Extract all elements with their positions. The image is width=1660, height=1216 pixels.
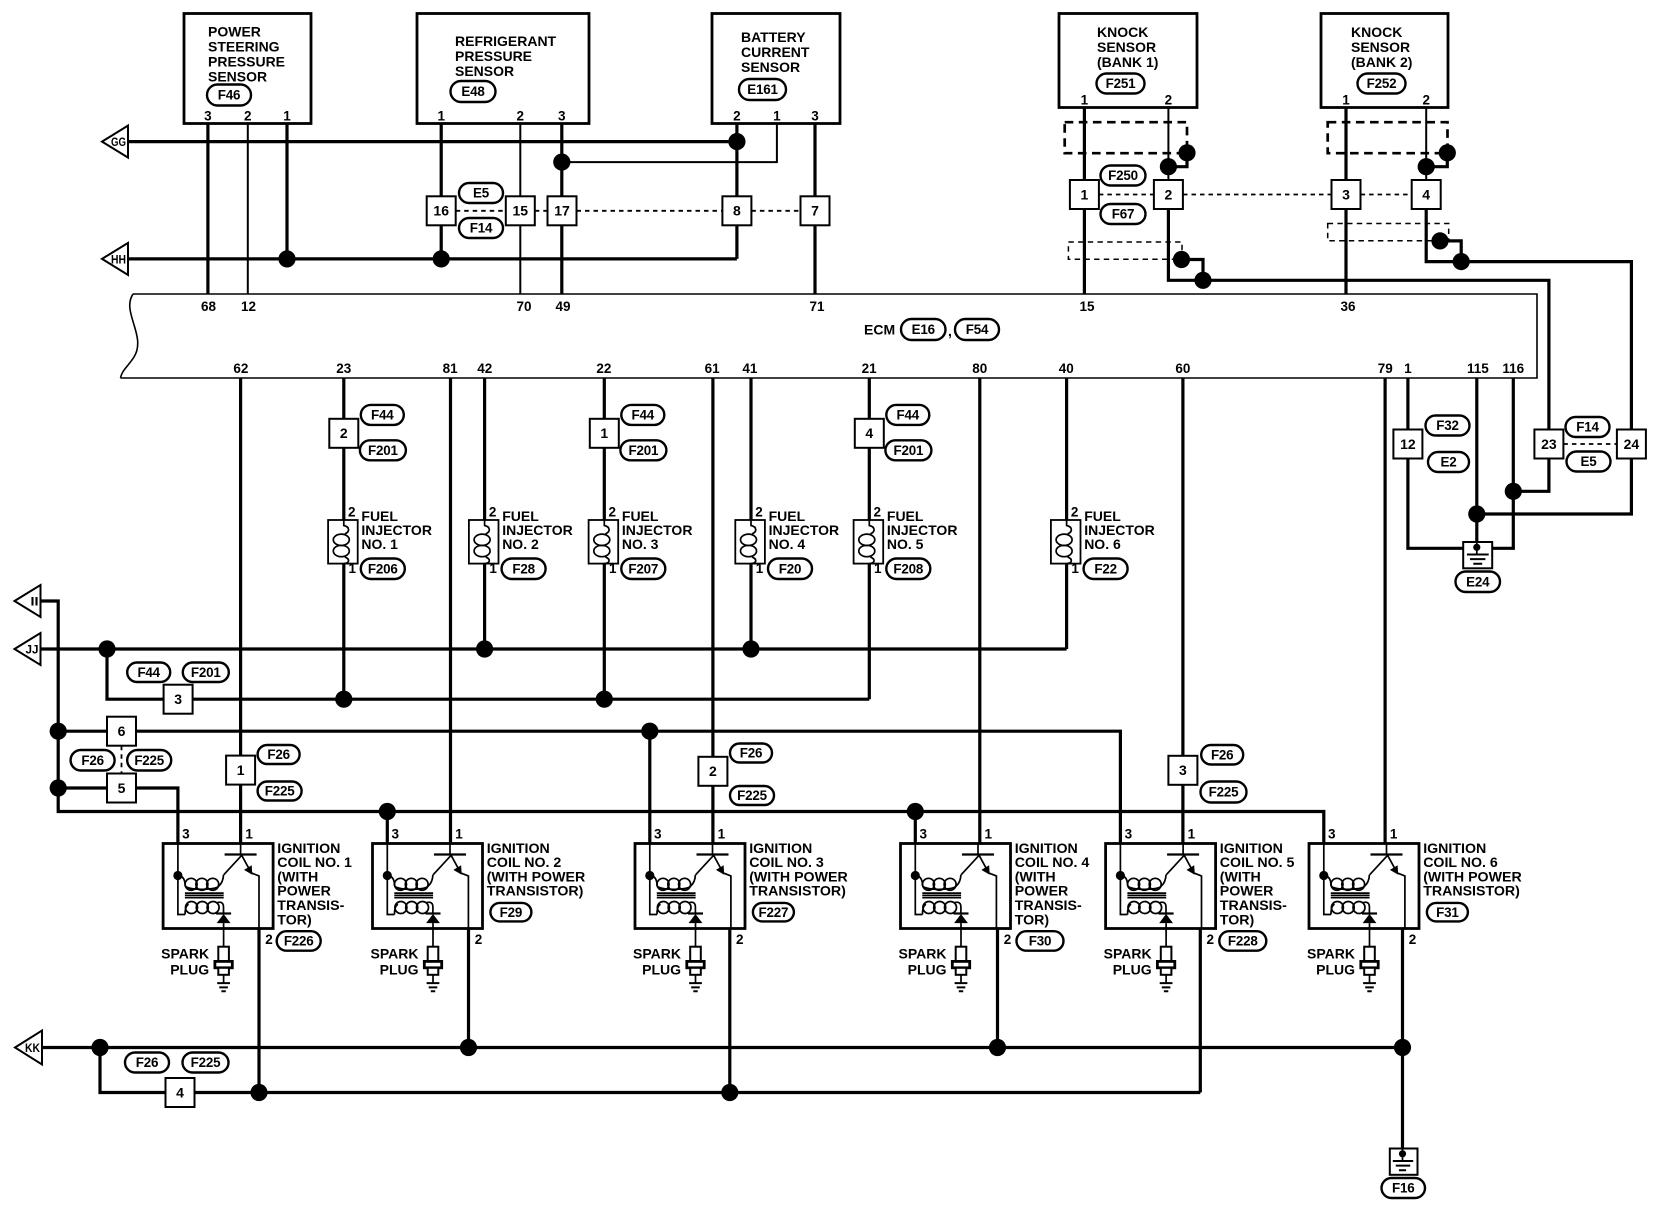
svg-text:REFRIGERANT: REFRIGERANT [455, 33, 557, 49]
svg-text:F14: F14 [1576, 420, 1599, 435]
svg-text:SPARK: SPARK [1104, 946, 1152, 962]
svg-text:3: 3 [182, 827, 190, 842]
wire ECM pin 40 to fuel injector 6 and corner onto JJ bus [1065, 378, 1068, 649]
svg-text:1: 1 [437, 109, 445, 124]
svg-text:3: 3 [558, 109, 566, 124]
connector 3 on coil5 wire F26/F225 [1168, 756, 1197, 785]
svg-text:F26: F26 [136, 1055, 158, 1070]
ignition coil no. 3 with power transistor F227 [635, 844, 745, 929]
svg-text:E2: E2 [1441, 455, 1457, 470]
svg-text:PRESSURE: PRESSURE [455, 48, 532, 64]
svg-text:KK: KK [25, 1043, 41, 1055]
wire knock sensor bank2 pin 2 lower segment to connector 24 to node on ECM 115 wire [1426, 195, 1631, 515]
svg-text:HH: HH [111, 254, 126, 266]
svg-text:GG: GG [111, 137, 126, 149]
svg-text:F201: F201 [191, 665, 221, 680]
connector 15 refrigerant pin2 [506, 196, 535, 225]
connector label F26 rows B/C [71, 750, 115, 771]
wire ECM pin 21 to fuel injector 5 and corner onto row A [868, 378, 871, 699]
connector label F26 coil5 [1201, 745, 1243, 765]
connector arrow GG [102, 126, 128, 158]
svg-text:F26: F26 [267, 747, 289, 762]
connector label F228 [1219, 931, 1266, 951]
connector 2 on coil3 wire F26/F225 [698, 757, 727, 786]
svg-text:SENSOR: SENSOR [208, 69, 267, 85]
wire ECM pin 60 to ignition coil 5 pin 1 [1181, 378, 1184, 844]
svg-text:F44: F44 [897, 408, 920, 423]
wire ECM pin 116 to ground E24 [1492, 378, 1513, 548]
connector arrow JJ [15, 633, 41, 665]
ignition coil no. 6 with power transistor F31 [1309, 844, 1419, 929]
svg-text:F227: F227 [759, 905, 789, 920]
knock sensor bank 2 F252 [1321, 14, 1448, 108]
svg-text:24: 24 [1624, 436, 1640, 452]
svg-text:115: 115 [1467, 361, 1489, 376]
connector arrow II [15, 585, 41, 617]
svg-text:8: 8 [733, 203, 741, 219]
connector 17 refrigerant pin3 [548, 196, 577, 225]
connector 1 knock bank1 pin1 F250/F67 [1070, 180, 1099, 209]
wire branch row D to ignition coil 2 pin 3 [386, 812, 389, 844]
svg-text:80: 80 [972, 361, 987, 376]
svg-text:2: 2 [709, 763, 717, 779]
connector label F31 [1427, 903, 1468, 922]
svg-text:E16: E16 [912, 322, 935, 337]
connector label F26 coil1 [258, 745, 300, 764]
svg-text:36: 36 [1340, 299, 1356, 314]
svg-text:2: 2 [1207, 932, 1215, 947]
svg-text:23: 23 [336, 361, 352, 376]
spark plug 3 [687, 947, 704, 992]
wire battery sensor pin 1 to refrigerant pin 3 node [562, 124, 777, 163]
svg-text:E161: E161 [747, 82, 778, 97]
connector 7 battery pin3 [801, 196, 830, 225]
wire ignition coil 4 pin 2 down [996, 929, 999, 1048]
svg-text:21: 21 [862, 361, 878, 376]
svg-text:2: 2 [1165, 93, 1173, 108]
connector label F44 injector1 [361, 405, 404, 425]
connector 4 on lower row F26/F225 [166, 1078, 195, 1107]
svg-text:1: 1 [600, 425, 608, 441]
wire GG bus from connector GG to battery current sensor pin 2 [128, 140, 737, 143]
connector label F29 [490, 903, 531, 922]
svg-text:F225: F225 [737, 788, 767, 803]
wire ECM pin 22 to fuel injector 3 and node on row A [603, 378, 606, 699]
svg-text:7: 7 [811, 203, 819, 219]
svg-text:1: 1 [1081, 186, 1089, 202]
svg-text:16: 16 [433, 203, 449, 219]
svg-text:II: II [31, 597, 39, 609]
connector label F44 injector5 [886, 405, 929, 425]
svg-text:TOR): TOR) [1015, 912, 1050, 928]
svg-text:F226: F226 [284, 934, 314, 949]
svg-text:2: 2 [1165, 186, 1173, 202]
wire ignition coil 3 to spark plug [695, 929, 697, 947]
svg-text:E48: E48 [461, 84, 485, 99]
svg-text:1: 1 [874, 561, 882, 576]
wire bank2 shield drain lower elbow [1440, 241, 1461, 262]
wire KK bus to ignition coils 2 4 6 pin 2 and ground F16 [41, 1046, 1403, 1049]
svg-text:60: 60 [1175, 361, 1190, 376]
connector label F14 [459, 218, 503, 238]
wire II branch vertical and row D to ignition coils 2 4 6 pin 3 [41, 601, 1324, 844]
wire knock sensor bank1 pin 2 upper segment [1167, 108, 1169, 195]
svg-text:F207: F207 [628, 561, 658, 576]
refrigerant pressure sensor E48 [417, 14, 589, 124]
svg-text:2: 2 [609, 505, 617, 520]
svg-text:2: 2 [348, 505, 356, 520]
svg-text:NO. 2: NO. 2 [502, 536, 539, 552]
connector label F14 right [1566, 417, 1610, 437]
spark plug 5 [1157, 947, 1174, 992]
svg-text:3: 3 [392, 827, 400, 842]
connector label F226 [277, 931, 321, 951]
svg-text:F67: F67 [1112, 207, 1134, 222]
svg-text:2: 2 [755, 505, 763, 520]
svg-text:,: , [948, 323, 952, 339]
svg-text:12: 12 [1400, 436, 1416, 452]
svg-text:1: 1 [756, 561, 764, 576]
wire ignition coil 2 pin 2 down [467, 929, 470, 1048]
wire power steering sensor pin 1 to HH bus [285, 124, 288, 259]
wire ECM pin 1 through connector 12 to ground E24 [1408, 378, 1463, 548]
svg-text:3: 3 [174, 691, 182, 707]
svg-text:71: 71 [809, 299, 825, 314]
svg-text:TRANSISTOR): TRANSISTOR) [749, 884, 846, 900]
svg-text:F29: F29 [500, 905, 522, 920]
svg-text:NO. 4: NO. 4 [769, 536, 806, 552]
svg-text:F225: F225 [191, 1055, 221, 1070]
connector label F250 [1101, 166, 1146, 186]
knock sensor bank 1 F251 [1059, 14, 1197, 108]
svg-text:1: 1 [283, 109, 291, 124]
wire knock sensor bank1 pin 2 lower segment to connector 23 to node on ECM 116 wire [1168, 195, 1549, 492]
svg-text:17: 17 [554, 203, 570, 219]
svg-text:KNOCK: KNOCK [1097, 24, 1148, 40]
connector label F67 [1101, 204, 1146, 224]
fuel injector NO. 1 F206 [328, 520, 358, 564]
wire bank2 shield drain upper elbow [1426, 153, 1447, 167]
svg-text:3: 3 [654, 827, 662, 842]
svg-text:F30: F30 [1029, 934, 1051, 949]
svg-text:1: 1 [1071, 561, 1079, 576]
connector label F225 rows B/C [127, 750, 171, 771]
svg-text:1: 1 [1342, 93, 1350, 108]
spark plug 6 [1361, 947, 1378, 992]
fuel injector NO. 5 F208 [854, 520, 884, 564]
connector 4 injector5 wire F44/F201 [855, 419, 884, 448]
svg-text:F20: F20 [779, 561, 801, 576]
junction dots [278, 250, 295, 267]
svg-text:F31: F31 [1436, 905, 1459, 920]
svg-text:1: 1 [349, 561, 357, 576]
connector label E5 [459, 183, 503, 203]
svg-text:4: 4 [1422, 186, 1430, 202]
ignition coil no. 4 with power transistor F30 [901, 844, 1011, 929]
svg-text:F228: F228 [1228, 934, 1258, 949]
svg-text:1: 1 [718, 827, 726, 842]
connector label F201 injector3 [620, 440, 666, 460]
svg-text:PLUG: PLUG [170, 962, 209, 978]
connector 4 knock bank2 pin2 [1412, 180, 1441, 209]
dashed link connectors 23-24 F14/E5 [1563, 443, 1617, 445]
svg-text:1: 1 [1188, 827, 1196, 842]
svg-text:2: 2 [1071, 505, 1079, 520]
connector label F44 row A [127, 663, 170, 683]
svg-text:TRANSISTOR): TRANSISTOR) [487, 884, 584, 900]
wire row C through connector 5 to ignition coil 1 pin 3 [58, 788, 178, 844]
svg-text:79: 79 [1378, 361, 1393, 376]
svg-text:2: 2 [244, 109, 252, 124]
svg-text:1: 1 [245, 827, 253, 842]
connector label F225 coil3 [730, 786, 774, 805]
wire knock sensor bank1 pin 1 to ECM pin 15 [1083, 108, 1086, 295]
wire refrigerant sensor pin 3 to ECM pin 49 [560, 124, 563, 295]
svg-text:PRESSURE: PRESSURE [208, 54, 285, 70]
svg-text:5: 5 [118, 780, 126, 796]
power steering pressure sensor F46 [184, 14, 311, 124]
svg-text:1: 1 [455, 827, 463, 842]
connector label F201 injector1 [360, 440, 406, 460]
wire battery sensor pin 2 through connector 8 to HH corner [735, 124, 738, 259]
spark plug 4 [952, 947, 969, 992]
connector label F30 [1017, 931, 1064, 951]
connector 1 injector3 wire F44/F201 [590, 419, 619, 448]
svg-text:22: 22 [596, 361, 611, 376]
svg-text:F26: F26 [81, 753, 103, 768]
svg-text:NO. 3: NO. 3 [622, 536, 659, 552]
svg-text:SPARK: SPARK [161, 946, 209, 962]
wire row B through connector 6 to ignition coil 5 pin 3 [58, 731, 1120, 843]
spark plug 1 [215, 947, 232, 992]
svg-text:F32: F32 [1436, 418, 1458, 433]
svg-text:F14: F14 [470, 221, 493, 236]
wire ignition coil 6 to spark plug [1369, 929, 1371, 947]
svg-text:2: 2 [489, 505, 497, 520]
connector arrow HH [102, 243, 128, 275]
svg-text:1: 1 [1390, 827, 1398, 842]
svg-text:F26: F26 [740, 746, 762, 761]
svg-text:49: 49 [555, 299, 570, 314]
svg-text:SENSOR: SENSOR [741, 59, 800, 75]
wire ignition coil 1 pin 2 down [257, 929, 260, 1093]
wire JJ bus to ECM pins 42 41 40 [41, 647, 1067, 650]
connector label F225 coil1 [258, 782, 302, 801]
svg-text:40: 40 [1059, 361, 1074, 376]
dashed link connectors 16-15-17-8-7 E5/F14 [456, 210, 801, 212]
svg-text:F201: F201 [894, 443, 924, 458]
wire ECM pin 41 to fuel injector 4 and node on JJ bus [749, 378, 752, 649]
shield box knock sensor bank1 lower [1068, 242, 1182, 259]
svg-text:POWER: POWER [208, 24, 261, 40]
svg-text:2: 2 [517, 109, 525, 124]
connector 2 injector1 wire F44/F201 [329, 419, 358, 448]
svg-text:F54: F54 [966, 322, 989, 337]
svg-text:15: 15 [1079, 299, 1095, 314]
ignition coil no. 1 with power transistor F226 [163, 844, 273, 929]
svg-text:2: 2 [1422, 93, 1430, 108]
svg-text:NO. 1: NO. 1 [361, 536, 398, 552]
connector 8 battery pin2 [722, 196, 751, 225]
spark plug 2 [424, 947, 441, 992]
svg-text:E5: E5 [1581, 454, 1598, 469]
svg-text:F208: F208 [893, 561, 923, 576]
wire ignition coil 2 to spark plug [432, 929, 434, 947]
connector 6 on row B F26/F225 [107, 717, 136, 746]
connector label F26 bottom [125, 1053, 169, 1073]
svg-text:NO. 6: NO. 6 [1084, 536, 1121, 552]
svg-text:68: 68 [201, 299, 217, 314]
connector 3 knock bank2 pin1 [1332, 180, 1361, 209]
wire battery sensor pin 3 to ECM pin 71 [813, 124, 816, 295]
fuel injector NO. 4 F20 [735, 520, 765, 564]
svg-text:E24: E24 [1466, 574, 1490, 589]
svg-text:STEERING: STEERING [208, 39, 280, 55]
svg-text:PLUG: PLUG [380, 962, 419, 978]
svg-text:PLUG: PLUG [1113, 962, 1152, 978]
svg-text:E5: E5 [473, 186, 490, 201]
connector 1 on coil1 wire F26/F225 [226, 756, 255, 785]
connector label F227 [753, 903, 794, 922]
svg-text:42: 42 [477, 361, 492, 376]
svg-text:F16: F16 [1392, 1181, 1414, 1196]
svg-text:6: 6 [118, 723, 126, 739]
shield box knock sensor bank2 lower [1328, 224, 1449, 241]
svg-text:CURRENT: CURRENT [741, 44, 810, 60]
shield box knock sensor bank1 upper [1065, 122, 1187, 153]
svg-text:F44: F44 [632, 408, 655, 423]
wire ECM pin 62 to ignition coil 1 pin 1 [239, 378, 242, 844]
wire ignition coil 1 to spark plug [223, 929, 225, 947]
svg-text:F201: F201 [368, 443, 398, 458]
battery current sensor E161 [712, 14, 840, 124]
svg-text:F225: F225 [134, 753, 164, 768]
svg-text:1: 1 [1081, 93, 1089, 108]
svg-text:F250: F250 [1108, 168, 1138, 183]
svg-text:1: 1 [985, 827, 993, 842]
wire ignition coil 6 pin 2 to ground F16 [1401, 929, 1404, 1149]
connector label E2 [1428, 452, 1469, 472]
svg-text:2: 2 [874, 505, 882, 520]
wire ECM pin 79 to ignition coil 6 pin 1 [1383, 378, 1386, 844]
svg-text:2: 2 [475, 932, 483, 947]
dashed link connectors 6-5 F26/F225 [121, 746, 123, 774]
svg-text:2: 2 [265, 932, 273, 947]
svg-text:F252: F252 [1367, 76, 1397, 91]
wire ECM pin 81 to ignition coil 2 pin 1 [449, 378, 452, 844]
svg-text:JJ: JJ [26, 645, 39, 657]
wire refrigerant sensor pin 2 to ECM pin 70 [519, 124, 521, 295]
wire HH bus from connector HH to battery sensor pin 2 branch [128, 257, 737, 260]
shield box knock sensor bank2 upper [1328, 122, 1448, 153]
connector label F201 row A [183, 663, 229, 683]
svg-text:2: 2 [736, 932, 744, 947]
svg-text:2: 2 [733, 109, 741, 124]
svg-text:3: 3 [1179, 762, 1187, 778]
dashed link connectors 1-2-3-4 F250/F67 [1099, 194, 1412, 196]
wire knock sensor bank2 pin 1 to ECM pin 36 [1344, 108, 1347, 295]
ECM box E16 F54 [121, 294, 1538, 378]
connector 2 knock bank1 pin2 [1154, 180, 1183, 209]
connector label F201 injector5 [885, 440, 931, 460]
wire branch row D to ignition coil 4 pin 3 [914, 812, 917, 844]
svg-text:15: 15 [513, 203, 529, 219]
wire ignition coil 3 pin 2 down [728, 929, 731, 1093]
svg-text:SPARK: SPARK [371, 946, 419, 962]
svg-text:116: 116 [1502, 361, 1524, 376]
svg-text:F22: F22 [1094, 561, 1116, 576]
svg-text:ECM: ECM [864, 322, 895, 338]
svg-text:41: 41 [742, 361, 758, 376]
svg-text:62: 62 [233, 361, 248, 376]
svg-text:SENSOR: SENSOR [455, 63, 514, 79]
connector label F225 bottom [183, 1053, 229, 1073]
svg-text:BATTERY: BATTERY [741, 29, 806, 45]
wire refrigerant sensor pin 1 to HH bus [440, 124, 443, 259]
svg-text:PLUG: PLUG [642, 962, 681, 978]
wire ignition coil 5 pin 2 down [1199, 929, 1202, 1093]
svg-text:TOR): TOR) [277, 912, 312, 928]
connector 12 on ECM pin1 wire F32/E2 [1393, 430, 1422, 459]
svg-text:PLUG: PLUG [908, 962, 947, 978]
svg-text:1: 1 [489, 561, 497, 576]
svg-text:3: 3 [811, 109, 819, 124]
connector 24 on bank2 shield wire [1617, 430, 1646, 459]
wire branch row B to ignition coil 3 pin 3 [648, 731, 651, 843]
wire ECM pin 80 to ignition coil 4 pin 1 [978, 378, 981, 844]
wire ECM pin 23 to fuel injector 1 and node on row A [342, 378, 345, 699]
svg-text:3: 3 [1125, 827, 1133, 842]
svg-text:1: 1 [1404, 361, 1412, 376]
svg-text:F44: F44 [137, 665, 160, 680]
connector arrow KK [15, 1031, 42, 1065]
wire bank1 shield drain upper elbow [1168, 153, 1187, 167]
wire ECM pin 42 to fuel injector 2 and node on JJ bus [483, 378, 486, 649]
svg-text:F225: F225 [265, 784, 295, 799]
svg-text:TOR): TOR) [1220, 912, 1255, 928]
connector 5 on row C [107, 774, 136, 803]
svg-text:F251: F251 [1106, 76, 1136, 91]
svg-text:PLUG: PLUG [1316, 962, 1355, 978]
wire power steering sensor pin 3 to ECM pin 68 [206, 124, 209, 295]
connector 3 on row A F44/F201 [164, 685, 193, 714]
svg-text:SPARK: SPARK [1307, 946, 1355, 962]
svg-text:4: 4 [865, 425, 873, 441]
svg-text:4: 4 [176, 1084, 184, 1100]
fuel injector NO. 6 F22 [1051, 520, 1081, 564]
ignition coil no. 2 with power transistor F29 [373, 844, 483, 929]
ground F16 [1390, 1149, 1418, 1175]
svg-text:NO. 5: NO. 5 [887, 536, 924, 552]
svg-text:61: 61 [705, 361, 721, 376]
ignition coil no. 5 with power transistor F228 [1106, 844, 1216, 929]
fuel injector NO. 3 F207 [589, 520, 619, 564]
svg-text:1: 1 [609, 561, 617, 576]
svg-text:SPARK: SPARK [899, 946, 947, 962]
svg-text:TRANSISTOR): TRANSISTOR) [1423, 884, 1520, 900]
svg-text:F206: F206 [368, 561, 398, 576]
svg-text:2: 2 [1004, 932, 1012, 947]
connector label F32 [1426, 416, 1470, 436]
svg-text:SPARK: SPARK [633, 946, 681, 962]
wire ignition coil 5 to spark plug [1165, 929, 1167, 947]
wire ECM pin 61 to ignition coil 3 pin 1 [711, 378, 714, 844]
svg-text:KNOCK: KNOCK [1351, 24, 1402, 40]
svg-text:1: 1 [773, 109, 781, 124]
svg-text:F201: F201 [629, 443, 659, 458]
svg-text:SENSOR: SENSOR [1351, 39, 1410, 55]
wire power steering sensor pin 2 to ECM pin 12 [247, 124, 249, 295]
